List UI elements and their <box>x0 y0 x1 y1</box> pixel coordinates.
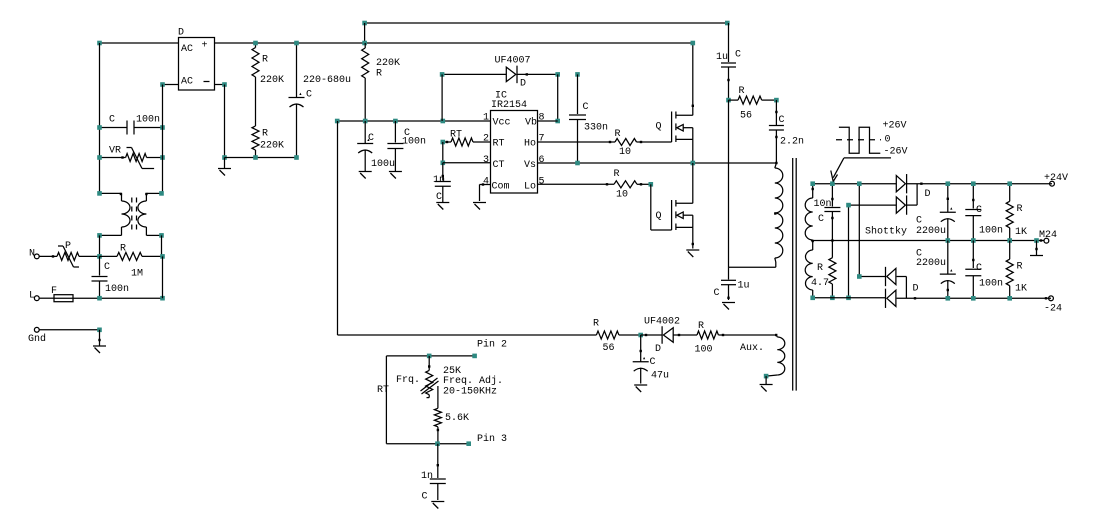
capacitor C 100n mains <box>92 256 130 298</box>
junction lo-gate <box>649 182 654 187</box>
svg-text:R: R <box>593 319 599 330</box>
svg-text:D: D <box>655 344 661 355</box>
junction choke-bl <box>97 233 102 238</box>
svg-text:R: R <box>614 169 620 180</box>
svg-text:1M: 1M <box>131 269 143 280</box>
wire bottom rail left <box>813 297 886 299</box>
svg-text:2: 2 <box>483 134 489 145</box>
wire Vs rail <box>538 162 777 164</box>
svg-text:6: 6 <box>539 155 545 166</box>
svg-text:VR: VR <box>109 146 121 157</box>
wire bridge - to right <box>215 84 225 86</box>
wire pin4 com <box>480 183 491 185</box>
capacitor C 1n ct <box>433 163 451 203</box>
svg-text:Vs: Vs <box>524 160 536 171</box>
resistor R 4.7 sec <box>811 241 836 298</box>
svg-text:1K: 1K <box>1015 227 1027 238</box>
svg-text:220K: 220K <box>260 141 284 152</box>
svg-text:330n: 330n <box>584 123 608 134</box>
wire pin8 stub <box>538 120 558 122</box>
svg-text:-26V: -26V <box>884 147 908 158</box>
svg-text:N: N <box>29 249 35 260</box>
svg-text:10: 10 <box>616 190 628 201</box>
junction bus2-left <box>362 21 367 26</box>
junction bus2-right <box>725 21 730 26</box>
varistor VR <box>100 146 163 169</box>
wire secondary top rail <box>813 183 897 185</box>
svg-text:3: 3 <box>483 155 489 166</box>
wire primary bottom <box>729 266 776 268</box>
capacitor C 1n freq <box>421 444 446 503</box>
junction choke-tl <box>97 191 102 196</box>
svg-text:C: C <box>104 262 110 273</box>
wire q1 drain up <box>692 43 694 115</box>
junction minus-gnd-rail <box>222 155 227 160</box>
junction db-feed <box>846 203 851 208</box>
svg-text:100n: 100n <box>979 279 1003 290</box>
schottky diode D lower D <box>886 284 919 308</box>
ground Gnd symbol <box>93 330 106 353</box>
text Shottky <box>865 226 907 238</box>
ground c1u-bottom <box>722 303 735 310</box>
junction pin3-end <box>466 441 471 446</box>
capacitor C 220-680u bulk <box>289 43 352 158</box>
svg-text:4.7: 4.7 <box>811 278 829 289</box>
transformer core <box>793 158 797 391</box>
junction pin2-pot <box>427 354 432 359</box>
junction c100n-right <box>160 125 165 130</box>
junction 2200a-top <box>946 181 951 186</box>
ground c1n <box>436 201 449 210</box>
waveform leader <box>831 158 891 182</box>
svg-text:1u: 1u <box>716 52 728 63</box>
diode UF4002 D aux <box>641 317 680 356</box>
wire minus24 rail <box>897 297 1051 299</box>
node vs-primary <box>775 162 777 164</box>
schottky diode D lower C <box>886 267 907 298</box>
svg-text:RT: RT <box>450 130 462 141</box>
wire vcc to aux long <box>338 121 597 335</box>
svg-text:R: R <box>817 263 823 274</box>
svg-text:C: C <box>976 263 982 274</box>
svg-text:D: D <box>520 79 526 90</box>
svg-text:R: R <box>739 86 745 97</box>
junction d-cath1 <box>555 72 560 77</box>
junction ct-node <box>441 161 446 166</box>
wire Vcc rail <box>337 120 490 122</box>
svg-text:+24V: +24V <box>1044 173 1068 184</box>
junction 100na-bot <box>971 238 976 243</box>
wire fuse to node <box>73 297 163 299</box>
waveform labels <box>883 121 908 158</box>
junction r220k-bot <box>253 155 258 160</box>
junction vs-330n <box>575 161 580 166</box>
svg-text:2.2n: 2.2n <box>780 137 804 148</box>
terminal -24 <box>1044 296 1062 315</box>
svg-text:AC: AC <box>181 77 193 88</box>
svg-text:+: + <box>202 41 208 52</box>
wire bridge AC- to left <box>163 84 179 86</box>
svg-text:Frq.: Frq. <box>396 375 420 386</box>
wire M24 rail <box>811 240 1044 242</box>
ground c100n <box>389 169 402 179</box>
svg-text:7: 7 <box>539 134 545 145</box>
fuse F <box>39 286 73 302</box>
ground M24 <box>1030 241 1043 256</box>
svg-text:R: R <box>698 321 704 332</box>
capacitor C 1u top <box>716 23 741 100</box>
svg-text:R: R <box>376 69 382 80</box>
junction 10n-bot <box>831 239 833 241</box>
junction c1u-r56 <box>726 98 731 103</box>
wire q2 drain up <box>692 163 694 203</box>
svg-text:2200u: 2200u <box>916 226 946 237</box>
svg-text:100n: 100n <box>105 284 129 295</box>
terminal +24V <box>1044 173 1068 186</box>
svg-text:R: R <box>615 129 621 140</box>
schottky diode D upper B <box>896 184 930 215</box>
junction dc-top <box>857 181 862 186</box>
svg-text:10: 10 <box>619 147 631 158</box>
junction 10n-top <box>830 181 835 186</box>
diode UF4007 D bootstrap <box>442 56 558 90</box>
svg-text:C: C <box>422 492 428 503</box>
wire vb vertical <box>557 74 559 121</box>
capacitor C 2.2n snubber <box>769 100 804 163</box>
junction r220k-top <box>253 41 258 46</box>
junction bus-q1 <box>691 41 696 46</box>
svg-text:56: 56 <box>740 111 752 122</box>
capacitor C 47u aux <box>633 335 669 384</box>
svg-text:Pin 2: Pin 2 <box>477 339 507 351</box>
capacitor C 2200u lower <box>916 241 956 299</box>
junction bus-link <box>362 41 367 46</box>
resistor R 5.6K <box>434 403 469 443</box>
ground bridge minus <box>218 158 231 176</box>
bracket RT <box>377 356 389 444</box>
capacitor C 100n line filter top <box>100 115 163 135</box>
junction node bus-left <box>97 41 102 46</box>
junction d-anode <box>440 72 445 77</box>
svg-text:IR2154: IR2154 <box>491 100 527 111</box>
terminal N <box>29 249 39 260</box>
junction r1m-right <box>160 254 165 259</box>
svg-text:Lo: Lo <box>524 182 536 193</box>
junction 100na-top <box>971 181 976 186</box>
svg-text:20-150KHz: 20-150KHz <box>443 387 497 398</box>
junction cbulk-bot <box>294 155 299 160</box>
junction cbulk-top <box>294 41 299 46</box>
svg-text:D: D <box>925 189 931 200</box>
ground aux <box>760 376 773 391</box>
junction choke-br <box>159 233 164 238</box>
resistor R 100 aux <box>673 321 776 356</box>
potentiometer 25K Frq <box>396 356 503 404</box>
wire right vertical x=162 <box>162 85 164 194</box>
svg-text:Shottky: Shottky <box>865 226 907 238</box>
transformer T1 primary <box>774 163 783 267</box>
capacitor C 100n vcc <box>387 121 426 169</box>
svg-text:C: C <box>650 357 656 368</box>
wire pin3 row <box>386 433 507 445</box>
svg-text:-24: -24 <box>1044 304 1062 315</box>
junction pin3-node <box>435 441 440 446</box>
junction pin2-end <box>472 354 477 359</box>
svg-text:R: R <box>1017 204 1023 215</box>
svg-text:RT: RT <box>493 139 505 150</box>
svg-text:100n: 100n <box>979 226 1003 237</box>
transformer T1 secondary upper <box>805 184 814 240</box>
junction sec-top <box>810 181 815 186</box>
junction vcc-rt <box>441 119 446 124</box>
wire P to node <box>79 255 100 257</box>
junction L-node <box>97 296 102 301</box>
wire choke-br down <box>161 235 163 256</box>
wire rt-ct vertical <box>442 142 444 163</box>
svg-text:C: C <box>714 288 720 299</box>
svg-text:Com: Com <box>492 182 510 193</box>
wire diodeC feed <box>859 184 885 277</box>
svg-text:R: R <box>262 129 268 140</box>
junction 2200a-bot <box>946 238 951 243</box>
junction m24-gnd <box>1034 238 1039 243</box>
wire ct stub <box>443 162 491 164</box>
capacitor C 100n out lower <box>965 241 1003 299</box>
junction N-node <box>97 254 102 259</box>
svg-text:R: R <box>120 244 126 255</box>
resistor R 1K lower <box>1006 241 1027 299</box>
junction bot-left <box>810 296 815 301</box>
junction c100n-left <box>97 125 102 130</box>
wire half-bridge mid down <box>728 100 730 267</box>
junction vcc-corner <box>335 119 340 124</box>
capacitor C 100u vcc <box>357 121 395 170</box>
mosfet Q high-side <box>656 112 693 143</box>
svg-text:Aux.: Aux. <box>740 343 764 354</box>
junction aux-47u <box>638 333 643 338</box>
svg-text:C: C <box>779 115 785 126</box>
ground c47u <box>634 385 647 392</box>
choke top-right stub <box>145 193 161 195</box>
wire q1 source down <box>692 139 694 163</box>
svg-text:220-680u: 220-680u <box>303 75 351 86</box>
svg-text:1K: 1K <box>1015 284 1027 295</box>
resistor RT pin2 <box>443 130 491 147</box>
junction vb-pin <box>555 119 560 124</box>
junction db-bot <box>846 296 851 301</box>
ic IR2154 U1 <box>483 91 545 194</box>
junction r1kb-bot <box>1007 296 1012 301</box>
junction vr-left <box>97 155 102 160</box>
svg-text:C: C <box>306 90 312 101</box>
terminal Gnd <box>28 327 46 345</box>
junction bridge-AC- <box>160 82 165 87</box>
wire N to P <box>39 255 57 257</box>
ground com <box>473 185 486 210</box>
transformer T1 aux winding <box>740 334 785 376</box>
ground q2 source <box>686 227 699 257</box>
capacitor C 2200u upper <box>916 184 956 241</box>
capacitor C 1u bottom <box>714 267 750 300</box>
svg-text:F: F <box>51 286 57 297</box>
svg-text:Q: Q <box>656 122 662 133</box>
junction vcc-100n <box>393 119 398 124</box>
bridge rectifier D <box>178 28 215 91</box>
resistor R 220K lower <box>252 126 284 158</box>
junction rt-left <box>441 140 446 145</box>
resistor R 10 low <box>538 169 651 201</box>
svg-text:100: 100 <box>695 345 713 356</box>
svg-text:C: C <box>976 205 982 216</box>
svg-text:100n: 100n <box>136 115 160 126</box>
wire pin2 row <box>386 339 507 356</box>
junction choke-tr <box>159 191 164 196</box>
svg-text:5.6K: 5.6K <box>445 413 469 424</box>
wire d-anode down <box>441 74 443 121</box>
ground c100u <box>359 169 372 179</box>
wire bridge minus down <box>224 85 226 158</box>
transformer secondary tap <box>812 240 814 250</box>
wire bus link vertical <box>364 23 366 43</box>
svg-text:47u: 47u <box>651 371 669 382</box>
svg-text:R: R <box>1017 262 1023 273</box>
svg-text:C: C <box>368 133 374 144</box>
svg-text:0: 0 <box>885 135 891 146</box>
svg-text:Ho: Ho <box>524 139 536 150</box>
wire choke-br col down <box>162 256 164 298</box>
svg-text:L: L <box>29 291 35 302</box>
junction 2200b-bot <box>946 296 951 301</box>
terminal L <box>29 291 39 302</box>
wire gnd rail to divider <box>225 157 297 159</box>
wire left vertical x=99 <box>99 43 101 193</box>
resistor R 10 high <box>538 129 672 158</box>
wire plus24 rail <box>907 183 1053 185</box>
junction vr-right <box>160 155 165 160</box>
wire q2 gate path <box>651 184 672 230</box>
transformer T1 secondary lower <box>805 250 813 298</box>
svg-text:10n: 10n <box>814 199 832 210</box>
junction r1ka-top <box>1007 181 1012 186</box>
svg-text:Gnd: Gnd <box>28 333 46 345</box>
svg-text:P: P <box>65 241 71 252</box>
junction r1ka-bot <box>1007 238 1012 243</box>
wire top bus from bridge + output <box>100 42 693 44</box>
junction L-right <box>160 296 165 301</box>
resistor R 1K upper <box>1006 184 1027 241</box>
svg-text:C: C <box>583 102 589 113</box>
svg-text:2200u: 2200u <box>916 258 946 269</box>
svg-text:Freq. Adj.: Freq. Adj. <box>443 375 503 387</box>
junction aux-gnd <box>764 374 769 379</box>
junction vcc-100u <box>363 119 368 124</box>
svg-text:RT: RT <box>377 385 389 396</box>
resistor R 56 snubber <box>729 86 777 122</box>
svg-text:AC: AC <box>181 44 193 55</box>
svg-text:Q: Q <box>656 211 662 222</box>
svg-text:C: C <box>818 214 824 225</box>
svg-text:Vcc: Vcc <box>493 118 511 129</box>
svg-text:56: 56 <box>603 343 615 354</box>
svg-text:220K: 220K <box>376 58 400 69</box>
svg-text:5: 5 <box>539 177 545 188</box>
svg-text:1: 1 <box>483 113 489 124</box>
svg-text:Pin 3: Pin 3 <box>477 433 507 445</box>
svg-text:UF4007: UF4007 <box>495 56 531 67</box>
wire choke-bl down <box>99 235 101 256</box>
resistor R 56 aux <box>593 319 641 355</box>
svg-text:Vb: Vb <box>525 117 537 129</box>
svg-text:4: 4 <box>483 177 489 188</box>
svg-text:D: D <box>178 28 184 39</box>
choke top-left stub <box>100 193 123 195</box>
resistor R 220K startup <box>362 43 400 121</box>
junction dc-feed <box>857 274 862 279</box>
svg-text:100u: 100u <box>371 159 395 170</box>
junction d-cath2 <box>575 72 580 77</box>
junction 100nb-bot <box>971 296 976 301</box>
choke bottom stubs <box>100 234 162 236</box>
wire gnd terminal <box>39 329 99 331</box>
terminal M24 <box>1039 230 1057 243</box>
resistor R 220K upper <box>252 43 284 126</box>
common-mode choke L1 left winding <box>122 193 131 235</box>
svg-text:CT: CT <box>493 160 505 171</box>
svg-text:1u: 1u <box>738 281 750 292</box>
svg-text:8: 8 <box>539 113 545 124</box>
svg-text:C: C <box>436 192 442 203</box>
svg-text:220K: 220K <box>260 75 284 86</box>
junction gnd-node <box>97 328 102 333</box>
svg-text:1n: 1n <box>421 471 433 482</box>
capacitor C 100n out upper <box>965 184 1003 241</box>
capacitor C 330n bootstrap <box>569 74 608 163</box>
capacitor C 10n sec <box>814 184 841 241</box>
svg-text:UF4002: UF4002 <box>644 317 680 328</box>
wire top bus 2 <box>365 22 728 24</box>
junction r56-c22 <box>774 98 779 103</box>
svg-text:R: R <box>262 55 268 66</box>
choke core dashed lines <box>132 198 137 232</box>
svg-text:C: C <box>109 115 115 126</box>
waveform square wave <box>836 127 881 153</box>
resistor R 1M <box>100 244 163 280</box>
svg-text:C: C <box>735 50 741 61</box>
junction bridge-minus <box>222 82 227 87</box>
svg-text:100n: 100n <box>402 137 426 148</box>
junction r47-bot <box>830 296 835 301</box>
common-mode choke L1 right winding <box>138 193 147 235</box>
schottky diode D upper A <box>896 174 906 193</box>
ground c1n-freq <box>431 502 444 509</box>
mosfet Q low-side <box>656 200 693 230</box>
wire diodeB feed <box>849 205 897 298</box>
svg-text:D: D <box>913 284 919 295</box>
thermistor P <box>57 241 79 267</box>
junction vs-q <box>691 161 696 166</box>
svg-text:+26V: +26V <box>883 121 907 132</box>
